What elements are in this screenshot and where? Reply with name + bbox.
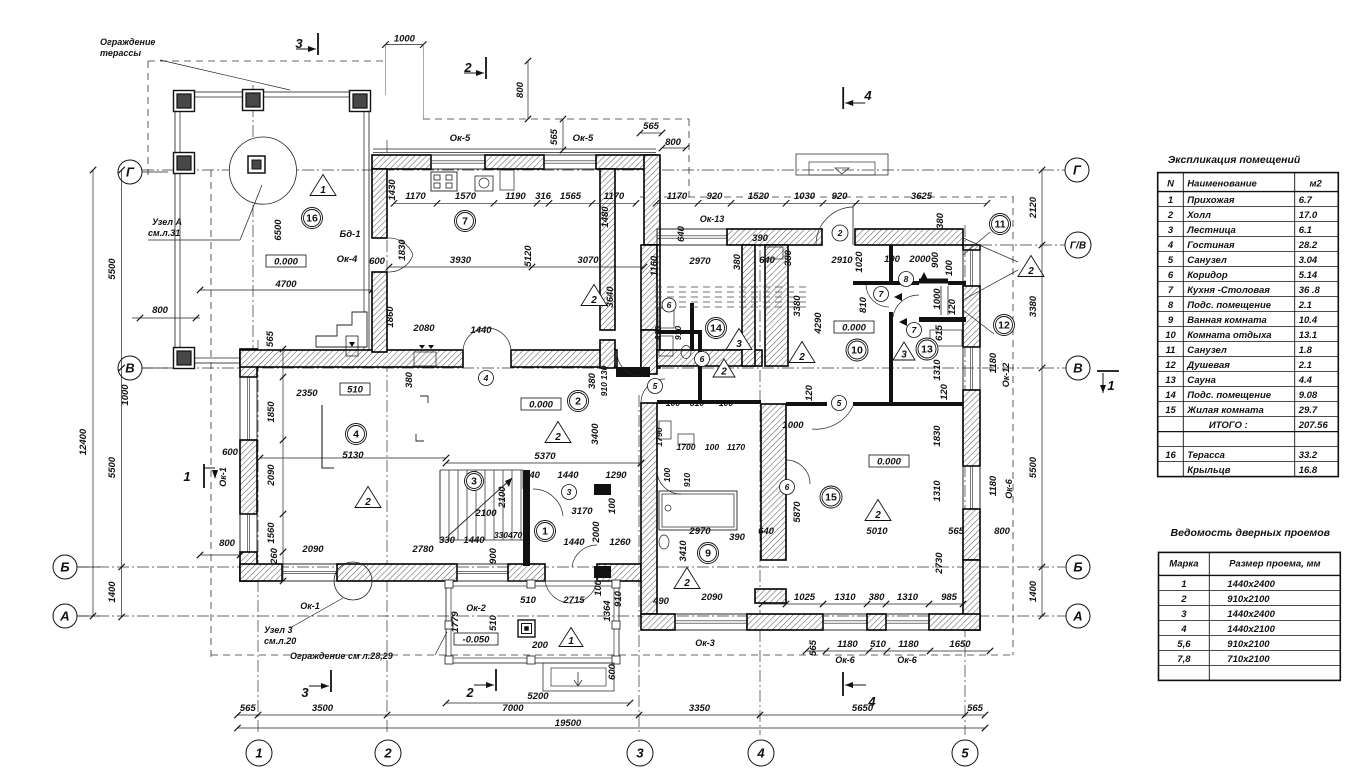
svg-text:2090: 2090 — [301, 544, 324, 555]
svg-text:3: 3 — [736, 339, 742, 350]
svg-text:1400: 1400 — [1028, 580, 1039, 602]
svg-text:Г: Г — [1073, 163, 1082, 178]
svg-text:10.4: 10.4 — [1299, 315, 1318, 326]
svg-text:Подс. помещение: Подс. помещение — [1187, 390, 1271, 401]
svg-text:3: 3 — [301, 685, 309, 700]
svg-text:16.8: 16.8 — [1299, 465, 1318, 476]
svg-text:29.7: 29.7 — [1298, 405, 1318, 416]
svg-text:565: 565 — [808, 639, 819, 656]
svg-text:N: N — [1167, 179, 1175, 190]
svg-text:800: 800 — [994, 526, 1011, 537]
svg-text:1830: 1830 — [397, 239, 408, 261]
svg-text:Г: Г — [126, 165, 135, 180]
svg-text:1440: 1440 — [470, 325, 492, 336]
svg-text:3930: 3930 — [450, 255, 472, 266]
svg-text:Ограждение: Ограждение — [100, 37, 155, 47]
svg-text:2090: 2090 — [700, 592, 723, 603]
svg-text:Сауна: Сауна — [1187, 375, 1216, 386]
svg-text:Г/В: Г/В — [1070, 241, 1086, 252]
svg-text:200: 200 — [531, 640, 549, 651]
svg-text:380: 380 — [783, 249, 794, 266]
svg-text:600: 600 — [607, 663, 618, 680]
svg-text:0.000: 0.000 — [877, 457, 901, 468]
svg-text:2.1: 2.1 — [1298, 360, 1312, 371]
svg-text:2970: 2970 — [688, 526, 711, 537]
svg-text:920: 920 — [707, 191, 724, 202]
svg-text:7000: 7000 — [502, 703, 524, 714]
svg-text:5870: 5870 — [792, 501, 803, 523]
svg-text:А: А — [59, 609, 69, 624]
svg-text:Прихожая: Прихожая — [1187, 195, 1235, 206]
svg-text:1: 1 — [320, 185, 326, 196]
svg-text:1170: 1170 — [667, 191, 688, 202]
svg-text:100: 100 — [666, 398, 680, 408]
svg-text:1440: 1440 — [463, 535, 485, 546]
svg-text:Ок-1: Ок-1 — [300, 601, 320, 611]
svg-text:2: 2 — [590, 295, 597, 306]
svg-text:800: 800 — [219, 538, 236, 549]
svg-text:510: 510 — [347, 385, 364, 396]
svg-text:3070: 3070 — [577, 255, 599, 266]
svg-text:615: 615 — [934, 324, 945, 341]
svg-text:1: 1 — [1107, 378, 1114, 393]
svg-text:5370: 5370 — [534, 451, 556, 462]
svg-text:2: 2 — [465, 685, 474, 700]
svg-text:14: 14 — [710, 323, 722, 335]
svg-text:Ок-3: Ок-3 — [695, 638, 715, 648]
svg-text:4: 4 — [483, 373, 489, 383]
svg-text:12: 12 — [998, 320, 1010, 332]
svg-text:5: 5 — [1168, 255, 1174, 266]
svg-text:Крыльцв: Крыльцв — [1187, 465, 1230, 476]
svg-text:6: 6 — [785, 482, 790, 492]
svg-text:6.7: 6.7 — [1299, 195, 1313, 206]
svg-text:9: 9 — [1168, 315, 1174, 326]
svg-text:Б: Б — [1073, 560, 1082, 575]
svg-text:Кухня -Столовая: Кухня -Столовая — [1187, 285, 1270, 296]
svg-text:910х2100: 910х2100 — [1227, 594, 1270, 605]
svg-text:1290: 1290 — [605, 470, 627, 481]
svg-text:1: 1 — [255, 746, 262, 761]
svg-text:1440х2400: 1440х2400 — [1227, 579, 1275, 590]
svg-text:5500: 5500 — [1028, 456, 1039, 478]
svg-text:565: 565 — [549, 128, 560, 145]
svg-text:12400: 12400 — [78, 428, 89, 455]
svg-text:100: 100 — [884, 254, 901, 265]
svg-text:100: 100 — [607, 497, 618, 514]
svg-text:2000: 2000 — [908, 254, 931, 265]
svg-text:2: 2 — [874, 510, 881, 521]
svg-text:1310: 1310 — [932, 359, 943, 381]
svg-text:Ок-12: Ок-12 — [1001, 363, 1011, 388]
svg-text:0.000: 0.000 — [529, 400, 553, 411]
svg-text:6.1: 6.1 — [1299, 225, 1312, 236]
svg-text:Санузел: Санузел — [1187, 255, 1227, 266]
svg-text:2910: 2910 — [830, 255, 853, 266]
svg-text:4: 4 — [756, 746, 765, 761]
svg-text:6500: 6500 — [273, 219, 284, 241]
svg-text:Лестница: Лестница — [1186, 225, 1236, 236]
svg-text:1.8: 1.8 — [1299, 345, 1313, 356]
svg-text:11: 11 — [1166, 345, 1176, 356]
svg-text:33.2: 33.2 — [1299, 450, 1318, 461]
svg-text:380: 380 — [935, 212, 946, 229]
svg-text:380: 380 — [869, 592, 886, 603]
svg-text:Гостиная: Гостиная — [1187, 240, 1235, 251]
svg-text:910: 910 — [673, 326, 683, 340]
svg-text:565: 565 — [948, 526, 965, 537]
svg-text:0.000: 0.000 — [842, 323, 866, 334]
svg-text:4: 4 — [353, 429, 359, 441]
svg-text:Коридор: Коридор — [1187, 270, 1228, 281]
svg-text:1480: 1480 — [600, 206, 611, 228]
svg-text:380: 380 — [404, 371, 415, 388]
svg-text:2: 2 — [720, 367, 727, 378]
svg-text:3: 3 — [1168, 225, 1174, 236]
svg-text:1170: 1170 — [604, 191, 625, 202]
svg-text:2: 2 — [837, 228, 843, 238]
svg-text:565: 565 — [240, 703, 257, 714]
svg-text:900: 900 — [488, 547, 499, 564]
svg-text:3380: 3380 — [1028, 295, 1039, 317]
svg-text:15: 15 — [825, 492, 837, 504]
svg-text:1440: 1440 — [563, 537, 585, 548]
svg-text:1310: 1310 — [834, 592, 856, 603]
svg-text:Ок-5: Ок-5 — [450, 133, 471, 144]
svg-text:см.л.31: см.л.31 — [148, 228, 180, 238]
svg-text:2: 2 — [575, 396, 581, 408]
svg-text:28.2: 28.2 — [1298, 240, 1318, 251]
svg-text:1850: 1850 — [266, 401, 277, 423]
svg-text:8: 8 — [904, 274, 909, 284]
svg-text:1430: 1430 — [387, 179, 398, 201]
svg-text:1400: 1400 — [107, 581, 118, 603]
svg-text:Ок-2: Ок-2 — [466, 603, 486, 613]
svg-text:1: 1 — [183, 469, 190, 484]
svg-text:1560: 1560 — [266, 522, 277, 544]
svg-text:2: 2 — [683, 578, 690, 589]
svg-text:810: 810 — [690, 398, 704, 408]
svg-text:100: 100 — [719, 398, 733, 408]
svg-text:Подс. помещение: Подс. помещение — [1187, 300, 1271, 311]
svg-text:5650: 5650 — [852, 703, 874, 714]
svg-text:390: 390 — [729, 532, 746, 543]
svg-text:терассы: терассы — [100, 48, 141, 58]
svg-text:910: 910 — [613, 590, 624, 607]
svg-text:Узел А: Узел А — [152, 217, 182, 227]
svg-text:2120: 2120 — [1028, 196, 1039, 219]
svg-text:510: 510 — [870, 639, 887, 650]
svg-text:1310: 1310 — [897, 592, 919, 603]
svg-text:5: 5 — [837, 398, 842, 408]
svg-text:1030: 1030 — [794, 191, 816, 202]
svg-text:3: 3 — [471, 476, 477, 488]
svg-text:800: 800 — [665, 137, 682, 148]
svg-text:4: 4 — [1167, 240, 1174, 251]
svg-text:100: 100 — [705, 442, 719, 452]
svg-text:3170: 3170 — [571, 506, 593, 517]
svg-text:8: 8 — [1168, 300, 1174, 311]
svg-text:2: 2 — [554, 432, 561, 443]
svg-text:А: А — [1072, 609, 1082, 624]
svg-text:920: 920 — [832, 191, 849, 202]
svg-text:16: 16 — [1165, 450, 1176, 461]
svg-text:4.4: 4.4 — [1298, 375, 1313, 386]
svg-text:15: 15 — [1165, 405, 1176, 416]
svg-text:Терасса: Терасса — [1187, 450, 1225, 461]
svg-text:Ок-5: Ок-5 — [573, 133, 594, 144]
svg-text:Душевая: Душевая — [1186, 360, 1230, 371]
svg-text:0.000: 0.000 — [274, 257, 298, 268]
svg-text:6: 6 — [667, 300, 672, 310]
svg-text:120: 120 — [939, 383, 950, 400]
svg-text:Ок-13: Ок-13 — [700, 214, 725, 224]
svg-text:2: 2 — [798, 352, 805, 363]
svg-text:м2: м2 — [1310, 179, 1323, 190]
svg-text:1000: 1000 — [120, 384, 131, 406]
svg-text:640: 640 — [676, 225, 687, 242]
svg-text:Б: Б — [60, 560, 69, 575]
svg-text:1: 1 — [542, 526, 548, 538]
svg-text:640: 640 — [759, 255, 776, 266]
svg-text:330: 330 — [439, 535, 456, 546]
svg-text:Размер проема, мм: Размер проема, мм — [1229, 558, 1320, 569]
svg-text:1020: 1020 — [854, 251, 865, 273]
svg-text:-0.050: -0.050 — [463, 635, 491, 646]
svg-text:17.0: 17.0 — [1299, 210, 1318, 221]
svg-text:910х2100: 910х2100 — [1227, 639, 1270, 650]
svg-text:910: 910 — [682, 473, 692, 487]
svg-text:120: 120 — [947, 298, 958, 315]
svg-text:Марка: Марка — [1169, 558, 1198, 569]
svg-text:4700: 4700 — [274, 279, 297, 290]
svg-text:120: 120 — [804, 384, 815, 401]
svg-text:1000: 1000 — [394, 34, 416, 45]
svg-text:16: 16 — [306, 213, 318, 225]
svg-text:207.56: 207.56 — [1298, 420, 1329, 431]
svg-text:100: 100 — [662, 468, 672, 482]
svg-text:Ок-6: Ок-6 — [897, 655, 918, 665]
svg-text:3625: 3625 — [911, 191, 933, 202]
svg-text:2000: 2000 — [591, 521, 602, 544]
svg-text:1440: 1440 — [557, 470, 579, 481]
svg-text:5500: 5500 — [107, 258, 118, 280]
svg-text:6: 6 — [700, 354, 705, 364]
svg-text:1440х2100: 1440х2100 — [1227, 624, 1275, 635]
svg-text:2: 2 — [1027, 266, 1034, 277]
svg-text:1779: 1779 — [450, 611, 461, 633]
svg-text:1520: 1520 — [748, 191, 770, 202]
svg-text:3410: 3410 — [678, 540, 689, 562]
svg-text:100: 100 — [593, 579, 604, 596]
svg-text:5200: 5200 — [527, 691, 549, 702]
svg-text:1025: 1025 — [794, 592, 816, 603]
svg-text:см.л.20: см.л.20 — [264, 636, 296, 646]
svg-text:540: 540 — [524, 470, 541, 481]
svg-text:14: 14 — [1165, 390, 1176, 401]
svg-text:Санузел: Санузел — [1187, 345, 1227, 356]
svg-text:3500: 3500 — [312, 703, 334, 714]
svg-text:2: 2 — [463, 60, 472, 75]
svg-text:3: 3 — [1181, 609, 1187, 620]
svg-text:3: 3 — [295, 36, 303, 51]
svg-text:Экспликация помещений: Экспликация помещений — [1168, 154, 1301, 166]
svg-text:1: 1 — [1181, 579, 1186, 590]
svg-text:510: 510 — [520, 595, 537, 606]
svg-text:5.14: 5.14 — [1299, 270, 1318, 281]
svg-text:890: 890 — [653, 326, 663, 340]
svg-text:7,8: 7,8 — [1177, 654, 1191, 665]
svg-text:800: 800 — [515, 81, 526, 98]
svg-text:600: 600 — [369, 256, 386, 267]
svg-text:1310: 1310 — [932, 480, 943, 502]
svg-text:2100: 2100 — [497, 486, 508, 509]
svg-text:1170: 1170 — [405, 191, 426, 202]
svg-text:316: 316 — [535, 191, 552, 202]
svg-text:7: 7 — [462, 216, 468, 228]
svg-text:Жилая комната: Жилая комната — [1186, 405, 1263, 416]
svg-text:12: 12 — [1165, 360, 1176, 371]
svg-text:1000: 1000 — [932, 288, 943, 310]
svg-text:В: В — [125, 361, 134, 376]
svg-text:1440х2400: 1440х2400 — [1227, 609, 1275, 620]
svg-text:1: 1 — [1168, 195, 1173, 206]
svg-text:Ограждение см л.28,29: Ограждение см л.28,29 — [290, 651, 393, 661]
svg-text:Комната отдыха: Комната отдыха — [1187, 330, 1271, 341]
svg-text:2080: 2080 — [412, 323, 435, 334]
svg-text:910 130: 910 130 — [599, 365, 609, 396]
svg-text:2350: 2350 — [295, 388, 318, 399]
svg-text:5130: 5130 — [342, 450, 364, 461]
svg-text:13: 13 — [921, 344, 933, 356]
svg-text:1565: 1565 — [560, 191, 582, 202]
svg-text:1860: 1860 — [385, 306, 396, 328]
svg-text:810: 810 — [858, 296, 869, 313]
svg-text:13.1: 13.1 — [1299, 330, 1318, 341]
svg-text:9: 9 — [705, 548, 711, 560]
svg-text:640: 640 — [758, 526, 775, 537]
svg-text:565: 565 — [967, 703, 984, 714]
svg-text:1570: 1570 — [455, 191, 477, 202]
svg-text:1190: 1190 — [505, 191, 526, 202]
svg-text:900: 900 — [930, 251, 941, 268]
svg-text:3: 3 — [636, 746, 644, 761]
svg-text:600: 600 — [222, 447, 239, 458]
svg-text:ИТОГО :: ИТОГО : — [1209, 420, 1248, 431]
svg-text:3640: 3640 — [605, 286, 616, 308]
svg-text:1260: 1260 — [609, 537, 631, 548]
svg-text:3380: 3380 — [792, 295, 803, 317]
svg-text:1180: 1180 — [837, 639, 858, 650]
svg-text:11: 11 — [994, 219, 1005, 231]
svg-text:490: 490 — [652, 596, 670, 607]
svg-text:1790: 1790 — [654, 427, 664, 446]
svg-text:1364: 1364 — [602, 600, 613, 622]
svg-text:1000: 1000 — [782, 420, 804, 431]
svg-text:2780: 2780 — [411, 544, 434, 555]
svg-text:510: 510 — [488, 614, 499, 631]
svg-text:2: 2 — [364, 497, 371, 508]
svg-text:3: 3 — [567, 487, 572, 497]
svg-text:6: 6 — [1168, 270, 1174, 281]
svg-text:3.04: 3.04 — [1299, 255, 1318, 266]
svg-text:565: 565 — [265, 330, 276, 347]
svg-text:1700: 1700 — [677, 442, 696, 452]
svg-text:2: 2 — [1167, 210, 1174, 221]
svg-text:5120: 5120 — [523, 245, 534, 267]
svg-text:Ок-1: Ок-1 — [218, 467, 228, 487]
svg-text:1650: 1650 — [949, 639, 971, 650]
svg-text:13: 13 — [1165, 375, 1176, 386]
svg-text:380: 380 — [732, 253, 743, 270]
svg-text:800: 800 — [152, 305, 169, 316]
svg-text:3: 3 — [901, 350, 907, 361]
svg-text:Узел 3: Узел 3 — [264, 625, 292, 635]
svg-text:5: 5 — [961, 746, 969, 761]
svg-text:2: 2 — [383, 746, 392, 761]
svg-text:Ок-6: Ок-6 — [835, 655, 856, 665]
svg-text:2090: 2090 — [266, 464, 277, 487]
svg-text:Бд-1: Бд-1 — [339, 229, 360, 240]
svg-text:330470: 330470 — [494, 530, 523, 540]
svg-text:1180: 1180 — [898, 639, 919, 650]
svg-text:985: 985 — [941, 592, 958, 603]
svg-text:565: 565 — [643, 121, 660, 132]
svg-text:Ванная комната: Ванная комната — [1187, 315, 1267, 326]
svg-text:4290: 4290 — [813, 312, 824, 335]
svg-text:1180: 1180 — [988, 352, 999, 373]
svg-text:19500: 19500 — [555, 718, 582, 729]
svg-text:Ведомость дверных проемов: Ведомость дверных проемов — [1171, 527, 1331, 539]
svg-text:5,6: 5,6 — [1177, 639, 1191, 650]
svg-text:36 .8: 36 .8 — [1299, 285, 1321, 296]
svg-text:Наименование: Наименование — [1187, 179, 1257, 190]
svg-text:3400: 3400 — [590, 423, 601, 445]
svg-text:10: 10 — [1165, 330, 1176, 341]
svg-text:2: 2 — [1180, 594, 1187, 605]
svg-text:710х2100: 710х2100 — [1227, 654, 1270, 665]
svg-text:390: 390 — [752, 233, 769, 244]
svg-text:1160: 1160 — [649, 255, 660, 276]
svg-text:Холл: Холл — [1186, 210, 1211, 221]
svg-text:5: 5 — [653, 381, 658, 391]
svg-text:7: 7 — [1168, 285, 1174, 296]
svg-text:В: В — [1073, 361, 1082, 376]
svg-text:9.08: 9.08 — [1299, 390, 1318, 401]
svg-text:10: 10 — [851, 345, 863, 357]
svg-text:260: 260 — [269, 547, 280, 565]
svg-text:2.1: 2.1 — [1298, 300, 1312, 311]
svg-text:3350: 3350 — [689, 703, 711, 714]
svg-text:Ок-4: Ок-4 — [337, 254, 358, 265]
svg-text:2970: 2970 — [688, 256, 711, 267]
svg-text:100: 100 — [944, 259, 955, 276]
svg-text:1830: 1830 — [932, 425, 943, 447]
svg-text:2100: 2100 — [474, 508, 497, 519]
svg-text:1170: 1170 — [727, 442, 746, 452]
svg-text:1: 1 — [568, 636, 574, 647]
svg-text:4: 4 — [1180, 624, 1187, 635]
svg-text:4: 4 — [863, 88, 872, 103]
svg-text:1180: 1180 — [988, 475, 999, 496]
svg-text:5010: 5010 — [866, 526, 888, 537]
svg-text:5500: 5500 — [107, 456, 118, 478]
svg-text:380: 380 — [587, 372, 598, 389]
svg-text:Ок-6: Ок-6 — [1004, 478, 1014, 499]
svg-text:2730: 2730 — [934, 552, 945, 575]
